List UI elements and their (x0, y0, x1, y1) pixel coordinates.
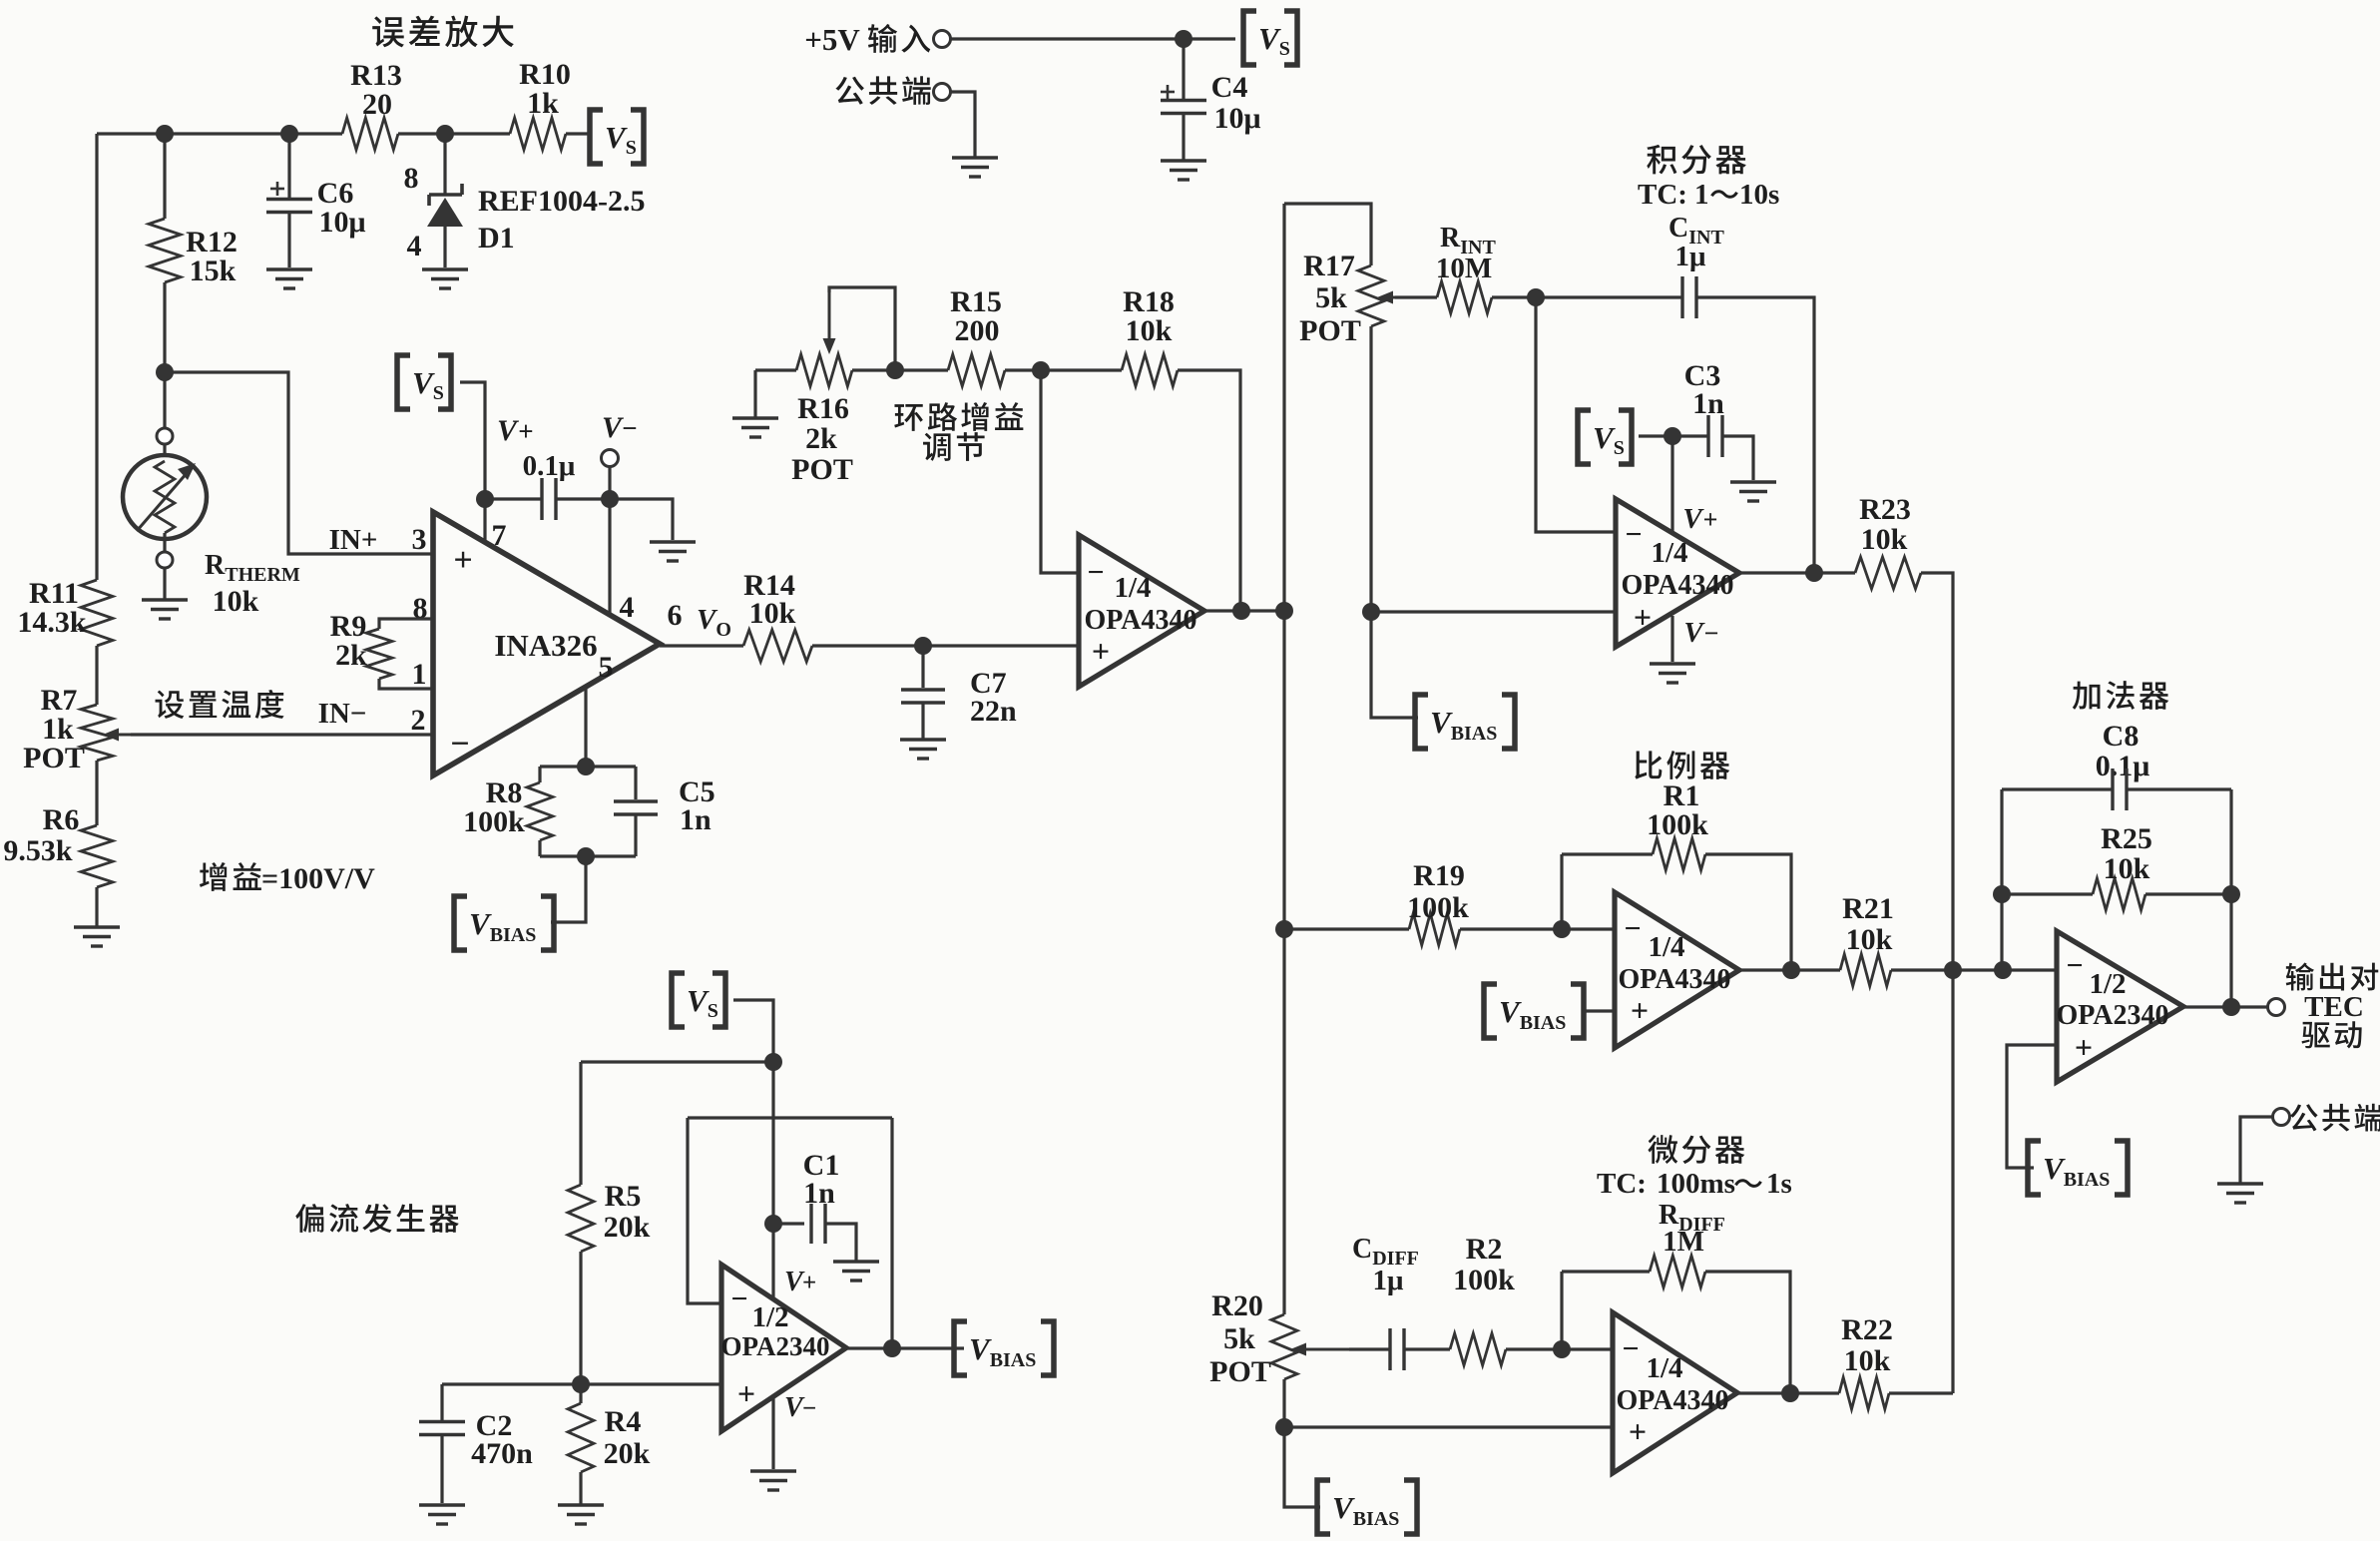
title 积分器 (integrator) (1647, 145, 1746, 175)
VBIAS integrator (1371, 612, 1418, 718)
svg-text:−: − (450, 726, 469, 763)
junction node R1/output (1782, 961, 1800, 979)
svg-text:INA326: INA326 (494, 628, 597, 663)
feedback rectangle to R17 (1284, 204, 1371, 265)
ground bottom right (2217, 1182, 2263, 1185)
svg-text:6: 6 (668, 599, 683, 632)
junction node A2 minus (1553, 920, 1571, 938)
svg-text:OPA4340: OPA4340 (1621, 570, 1733, 601)
A2 output wire (1739, 968, 1840, 971)
svg-text:1/4: 1/4 (1648, 931, 1684, 963)
svg-text:5k: 5k (1223, 1322, 1255, 1355)
op-amp A3 1/4 OPA4340 integrator (1616, 499, 1739, 647)
junction node RDIFF/output (1781, 1384, 1799, 1402)
junction node C8 leg (1994, 961, 2012, 979)
svg-text:0.1μ: 0.1μ (2096, 750, 2150, 782)
capacitor 0.1u supply bypass (485, 497, 542, 500)
svg-text:2k: 2k (335, 639, 367, 672)
resistor R25 10k feedback (2002, 892, 2093, 895)
capacitor C1 1n (773, 1222, 804, 1225)
svg-text:2: 2 (411, 704, 426, 737)
INA326 output wire pin6 (660, 644, 743, 647)
wire R23 to bus B (1921, 573, 1953, 1393)
svg-text:100k: 100k (463, 805, 525, 838)
resistor R15 200 (948, 354, 1005, 386)
junction node R12/top rail (156, 125, 174, 143)
resistor R12 15k (163, 134, 166, 219)
ground under bias opamp (750, 1469, 796, 1472)
svg-text:POT: POT (23, 742, 85, 774)
wire R2 to A4 minus (1506, 1347, 1613, 1350)
ground under R4 (558, 1503, 604, 1506)
V+ rail down (771, 1062, 774, 1300)
svg-text:+: + (1631, 992, 1649, 1028)
svg-text:5k: 5k (1315, 281, 1347, 314)
junction node R15/R18/A1- (1032, 361, 1050, 379)
wire common to ground (951, 92, 975, 157)
svg-text:IN+: IN+ (329, 524, 378, 556)
ground under R6 (74, 925, 120, 928)
wire R20 to bus bottom (1284, 1379, 1320, 1507)
svg-text:1n: 1n (680, 803, 712, 836)
wire +5V to VS (951, 37, 1235, 40)
terminal 公共端 bottom right (2273, 1109, 2290, 1126)
svg-text:1/4: 1/4 (1651, 537, 1687, 569)
title 偏流发生器 (bias generator) (295, 1204, 459, 1233)
capacitor C2 470n (440, 1384, 443, 1421)
svg-text:C8: C8 (2103, 720, 2140, 753)
resistor R23 10k (1855, 557, 1921, 589)
svg-text:REF1004-2.5: REF1004-2.5 (478, 185, 646, 218)
capacitor C5 1n (634, 767, 637, 799)
svg-text:−: − (622, 413, 637, 443)
wire R15-R18 (1005, 368, 1122, 371)
svg-text:1n: 1n (1692, 387, 1724, 420)
svg-text:−: − (730, 1283, 747, 1315)
svg-text:R21: R21 (1842, 892, 1894, 925)
wire R10-VS (566, 132, 591, 135)
svg-text:TC:: TC: (1638, 179, 1687, 211)
svg-text:20k: 20k (604, 1211, 651, 1244)
svg-text:+: + (2075, 1029, 2093, 1065)
junction node C1 (764, 1215, 782, 1233)
resistor R18 10k (1122, 354, 1178, 386)
ground under C3 (1730, 480, 1776, 483)
wire R21 to adder (1891, 968, 2057, 971)
capacitor C4 10u (1182, 39, 1185, 100)
wire R22 to bus B (1889, 1391, 1953, 1394)
svg-text:1μ: 1μ (1373, 1265, 1405, 1296)
svg-text:OPA4340: OPA4340 (1616, 1385, 1728, 1416)
svg-text:−: − (1622, 1332, 1639, 1365)
capacitor C7 22n (921, 646, 924, 688)
wire R11-R7 (95, 646, 98, 705)
terminal output to TEC (2268, 999, 2285, 1016)
node R12/thermistor junction (156, 363, 174, 381)
op-amp U1 INA326 (433, 512, 660, 775)
svg-text:−: − (1624, 912, 1641, 945)
svg-text:10μ: 10μ (318, 206, 365, 239)
potentiometer R7 1k (81, 705, 113, 761)
wire left bus down (95, 134, 98, 580)
junction node D1/top rail (436, 125, 454, 143)
wire VBIAS to A2 + (1582, 1009, 1615, 1012)
title 比例器 (proportional) (1635, 751, 1729, 779)
wire top rail (97, 132, 342, 135)
wire gnd to R16 (755, 368, 796, 371)
bias + input wire (442, 1382, 721, 1385)
svg-text:R22: R22 (1841, 1313, 1893, 1346)
junction node R25 right (2222, 885, 2240, 903)
wire R18 to A1 output (1178, 370, 1240, 611)
svg-text:OPA4340: OPA4340 (1618, 964, 1730, 995)
junction node A4 minus (1553, 1340, 1571, 1358)
resistor R13 (342, 118, 398, 150)
svg-text:15k: 15k (190, 255, 237, 287)
svg-text:1n: 1n (803, 1177, 835, 1210)
svg-text:POT: POT (1299, 314, 1361, 347)
wire R14 to A1 (812, 644, 1079, 647)
net label VBIAS A2 (1484, 984, 1497, 1038)
wire VS to rail (733, 1000, 773, 1062)
junction node C7 (914, 637, 932, 655)
junction node R25 left (1993, 885, 2011, 903)
svg-text:100ms: 100ms (1657, 1168, 1735, 1200)
resistor RDIFF 1M feedback (1560, 1272, 1563, 1349)
resistor R6 9.53k (81, 825, 113, 887)
capacitor C3 1n (1706, 415, 1709, 457)
svg-text:OPA4340: OPA4340 (1084, 605, 1196, 636)
potentiometer R16 2k (796, 354, 852, 386)
svg-text:R20: R20 (1211, 1289, 1263, 1322)
svg-text:R25: R25 (2101, 822, 2152, 855)
capacitor C8 0.1u feedback (2002, 787, 2114, 790)
junction node rail (764, 1053, 782, 1071)
label 增益=100V/V (gain) (200, 862, 261, 891)
svg-text:20k: 20k (604, 1437, 651, 1470)
junction node C3/V+ (1664, 427, 1681, 445)
resistor R14 10k (743, 630, 812, 662)
adder + input wire to VBIAS (2007, 1045, 2057, 1168)
A4 output wire (1737, 1391, 1839, 1394)
integrator + input wire (1371, 610, 1616, 613)
V- stub bias (771, 1396, 774, 1469)
zener diode D1 REF1004-2.5 (443, 134, 446, 195)
junction node R19 tap (1275, 920, 1293, 938)
svg-text:+: + (802, 1270, 816, 1296)
svg-text:+: + (518, 416, 533, 446)
resistor RINT 10M (1395, 295, 1437, 298)
resistor R1 100k feedback (1560, 854, 1563, 929)
svg-text:R16: R16 (797, 392, 849, 425)
wire R16-R15 (852, 368, 948, 371)
bias top rail (581, 1060, 773, 1063)
R8 C5 network top rail (540, 765, 636, 768)
junction node R16/R15 (886, 361, 904, 379)
net label VS integrator (1578, 410, 1591, 464)
svg-text:10k: 10k (1126, 314, 1173, 347)
svg-text:4: 4 (407, 230, 422, 262)
resistor R4 20k (579, 1384, 582, 1403)
junction node integrator minus (1527, 288, 1545, 306)
svg-text:10k: 10k (749, 597, 796, 630)
svg-text:10k: 10k (1844, 1344, 1891, 1377)
svg-text:OPA2340: OPA2340 (2056, 1000, 2168, 1031)
integrator output wire (1739, 571, 1855, 574)
A1 output wire (1204, 609, 1284, 612)
svg-text:1k: 1k (527, 87, 559, 120)
op-amp A2 1/4 OPA4340 proportional (1615, 892, 1739, 1048)
bus A vertical (1282, 204, 1285, 611)
junction node output (2222, 998, 2240, 1016)
svg-text:D1: D1 (478, 222, 515, 255)
svg-text:POT: POT (791, 453, 853, 486)
V+ stub integrator (1670, 436, 1673, 535)
bias output wire (846, 1346, 964, 1349)
svg-text:22n: 22n (970, 695, 1017, 728)
resistor R8 100k (538, 767, 541, 782)
svg-text:+: + (1634, 599, 1652, 635)
label 设置温度 (set temperature) (156, 690, 284, 719)
ground under C1 (833, 1260, 879, 1263)
net label VBIAS adder (2028, 1141, 2041, 1195)
svg-text:14.3k: 14.3k (17, 606, 87, 639)
svg-text:1/2: 1/2 (2089, 968, 2126, 1000)
wire R7-R6 (95, 761, 98, 825)
title 微分器 (differentiator) (1648, 1135, 1744, 1164)
svg-text:V: V (1683, 617, 1705, 649)
ground under thermistor (142, 598, 188, 601)
svg-text:R17: R17 (1303, 250, 1355, 282)
svg-text:V: V (497, 414, 520, 447)
svg-text:C4: C4 (1211, 71, 1248, 104)
svg-text:470n: 470n (471, 1437, 533, 1470)
svg-text:TC:: TC: (1597, 1168, 1647, 1200)
wire IN- from R7 wiper (131, 733, 433, 736)
wire RINT to CINT (1492, 295, 1682, 298)
svg-text:100k: 100k (1647, 808, 1708, 841)
junction node C6/top rail (280, 125, 298, 143)
wire to VBIAS (551, 856, 586, 922)
terminal V- (602, 450, 619, 467)
svg-text:1: 1 (412, 658, 427, 691)
op-amp A5 1/2 OPA2340 adder (2057, 931, 2183, 1082)
svg-text:OPA2340: OPA2340 (721, 1331, 830, 1361)
wire R17 bottom to node (1369, 326, 1372, 612)
svg-text:0.1μ: 0.1μ (523, 450, 576, 482)
ground under C4 (1161, 159, 1206, 162)
svg-text:+: + (453, 542, 472, 579)
wire junction to IN+ (165, 372, 433, 554)
net label VS top-left (590, 110, 603, 164)
svg-text:+: + (1703, 505, 1718, 534)
svg-text:10M: 10M (1436, 253, 1492, 284)
svg-text:1M: 1M (1663, 1226, 1704, 1258)
svg-text:3: 3 (412, 523, 427, 556)
svg-text:10k: 10k (213, 585, 259, 618)
capacitor C6 10u (287, 134, 290, 200)
junction node feedback/output (883, 1339, 901, 1357)
resistor R2 100k (1450, 1333, 1506, 1365)
net label VBIAS output (954, 1321, 967, 1375)
svg-text:20: 20 (362, 88, 392, 121)
net label VS bias (672, 973, 685, 1027)
title 加法器 (adder) (2073, 681, 2169, 710)
net label VBIAS bottom (1317, 1480, 1330, 1534)
pin5 wire (584, 688, 587, 767)
wire VS to pin7 (460, 382, 485, 541)
wire VS to V+ (1639, 434, 1672, 437)
svg-text:10μ: 10μ (1213, 102, 1260, 135)
svg-text:V: V (1682, 503, 1704, 535)
svg-text:+: + (1092, 633, 1110, 669)
ground under C7 (900, 738, 946, 741)
svg-text:−: − (802, 1395, 816, 1422)
svg-text:=100V/V: =100V/V (261, 862, 375, 895)
junction node pin5/R8C5 (577, 758, 595, 775)
junction node CINT/output (1805, 564, 1823, 582)
svg-text:200: 200 (955, 314, 1000, 347)
A4 + input wire (1284, 1425, 1613, 1428)
svg-text:5: 5 (599, 651, 614, 684)
resistor R9 2k gain set (379, 619, 433, 629)
svg-text:1s: 1s (1766, 1168, 1792, 1200)
wire common to ground (2240, 1117, 2272, 1183)
adder output wire (2183, 1005, 2267, 1008)
wire minus input (1536, 297, 1616, 532)
net label VS INA326 (397, 355, 410, 409)
thermistor RTHERM 10k (163, 372, 166, 428)
svg-text:9.53k: 9.53k (3, 834, 73, 867)
svg-text:IN−: IN− (318, 698, 367, 730)
svg-text:POT: POT (1209, 1355, 1271, 1388)
junction node bus A (1275, 602, 1293, 620)
svg-text:100k: 100k (1407, 891, 1469, 924)
svg-text:−: − (1625, 518, 1642, 551)
svg-text:1/4: 1/4 (1114, 572, 1151, 604)
svg-text:100k: 100k (1453, 1264, 1515, 1296)
title 误差放大 (error amplifier) (372, 16, 514, 48)
junction node R18 feedback (1232, 602, 1250, 620)
svg-text:1: 1 (1694, 179, 1709, 211)
label 输出对 TEC 驱动 (2286, 963, 2379, 991)
ground at common (952, 156, 998, 159)
svg-text:7: 7 (492, 519, 507, 552)
svg-text:R6: R6 (43, 803, 80, 836)
svg-text:10k: 10k (1846, 923, 1893, 956)
ground under C2 (419, 1503, 465, 1506)
capacitor CINT 1u (1680, 276, 1683, 318)
svg-text:R4: R4 (605, 1405, 642, 1438)
ground right of 0.1u (650, 540, 696, 543)
wire bus to R19 (1284, 927, 1409, 930)
junction node V- pin4 (601, 490, 619, 508)
junction node C4 top (1175, 30, 1192, 48)
ground under V- (1650, 662, 1695, 665)
resistor R5 20k (579, 1062, 582, 1185)
resistor R22 10k (1839, 1377, 1889, 1409)
net label VS supply (1243, 11, 1256, 65)
potentiometer R20 5k (1271, 1314, 1297, 1379)
junction node bus B (1944, 961, 1962, 979)
op-amp A6 1/2 OPA2340 bias (721, 1265, 846, 1431)
svg-text:+5V: +5V (804, 22, 860, 57)
terminal 公共端 (common) (835, 76, 930, 105)
R8 C5 bottom rail (540, 854, 636, 857)
svg-text:TEC: TEC (2304, 991, 2364, 1023)
svg-text:1/2: 1/2 (751, 1301, 788, 1333)
ground under C6 (266, 267, 312, 270)
svg-text:2k: 2k (805, 422, 837, 455)
op-amp A1 1/4 OPA4340 (1079, 535, 1204, 687)
V- stub integrator (1670, 616, 1673, 662)
wire R19 to A2 minus (1460, 927, 1615, 930)
junction node R8C5 bottom (577, 847, 595, 865)
svg-text:10s: 10s (1739, 179, 1779, 211)
junction node R5/R4/+ (572, 1375, 590, 1393)
svg-text:−: − (1087, 556, 1104, 589)
svg-text:8: 8 (404, 162, 419, 195)
svg-text:−: − (2066, 949, 2083, 982)
op-amp A4 1/4 OPA4340 differentiator (1613, 1312, 1737, 1473)
resistor R11 14.3k (81, 580, 113, 646)
svg-text:−: − (1704, 619, 1719, 648)
svg-text:+: + (737, 1375, 755, 1411)
svg-text:+: + (1629, 1413, 1647, 1449)
svg-text:R2: R2 (1466, 1233, 1503, 1266)
svg-text:R5: R5 (605, 1180, 642, 1213)
svg-text:R23: R23 (1859, 493, 1911, 526)
potentiometer R17 5k (1358, 265, 1384, 326)
svg-text:10k: 10k (1861, 523, 1908, 556)
resistor R10 (510, 118, 566, 150)
resistor R21 10k (1840, 954, 1891, 986)
ground under D1 (422, 267, 468, 270)
junction node A4 + tap (1275, 1418, 1293, 1436)
wire CDIFF to R2 (1404, 1347, 1450, 1350)
resistor R19 100k (1409, 913, 1460, 945)
wire R13-D1 (398, 132, 510, 135)
bias feedback rectangle (688, 1116, 892, 1119)
wire pin4 (608, 499, 611, 616)
svg-text:10k: 10k (2104, 852, 2150, 885)
svg-text:1/4: 1/4 (1646, 1352, 1682, 1384)
ground left of R16 (732, 416, 778, 419)
svg-text:1μ: 1μ (1675, 241, 1707, 272)
junction node integrator + ref (1362, 603, 1380, 621)
svg-text:R19: R19 (1413, 859, 1465, 892)
net label VBIAS INA326 (454, 896, 467, 950)
wire A1 minus input (1041, 370, 1079, 573)
bus A to R19 (1282, 611, 1285, 1314)
label 环路增益调节 (loop gain adjust) (894, 402, 1023, 431)
junction node pin7/cap (476, 490, 494, 508)
